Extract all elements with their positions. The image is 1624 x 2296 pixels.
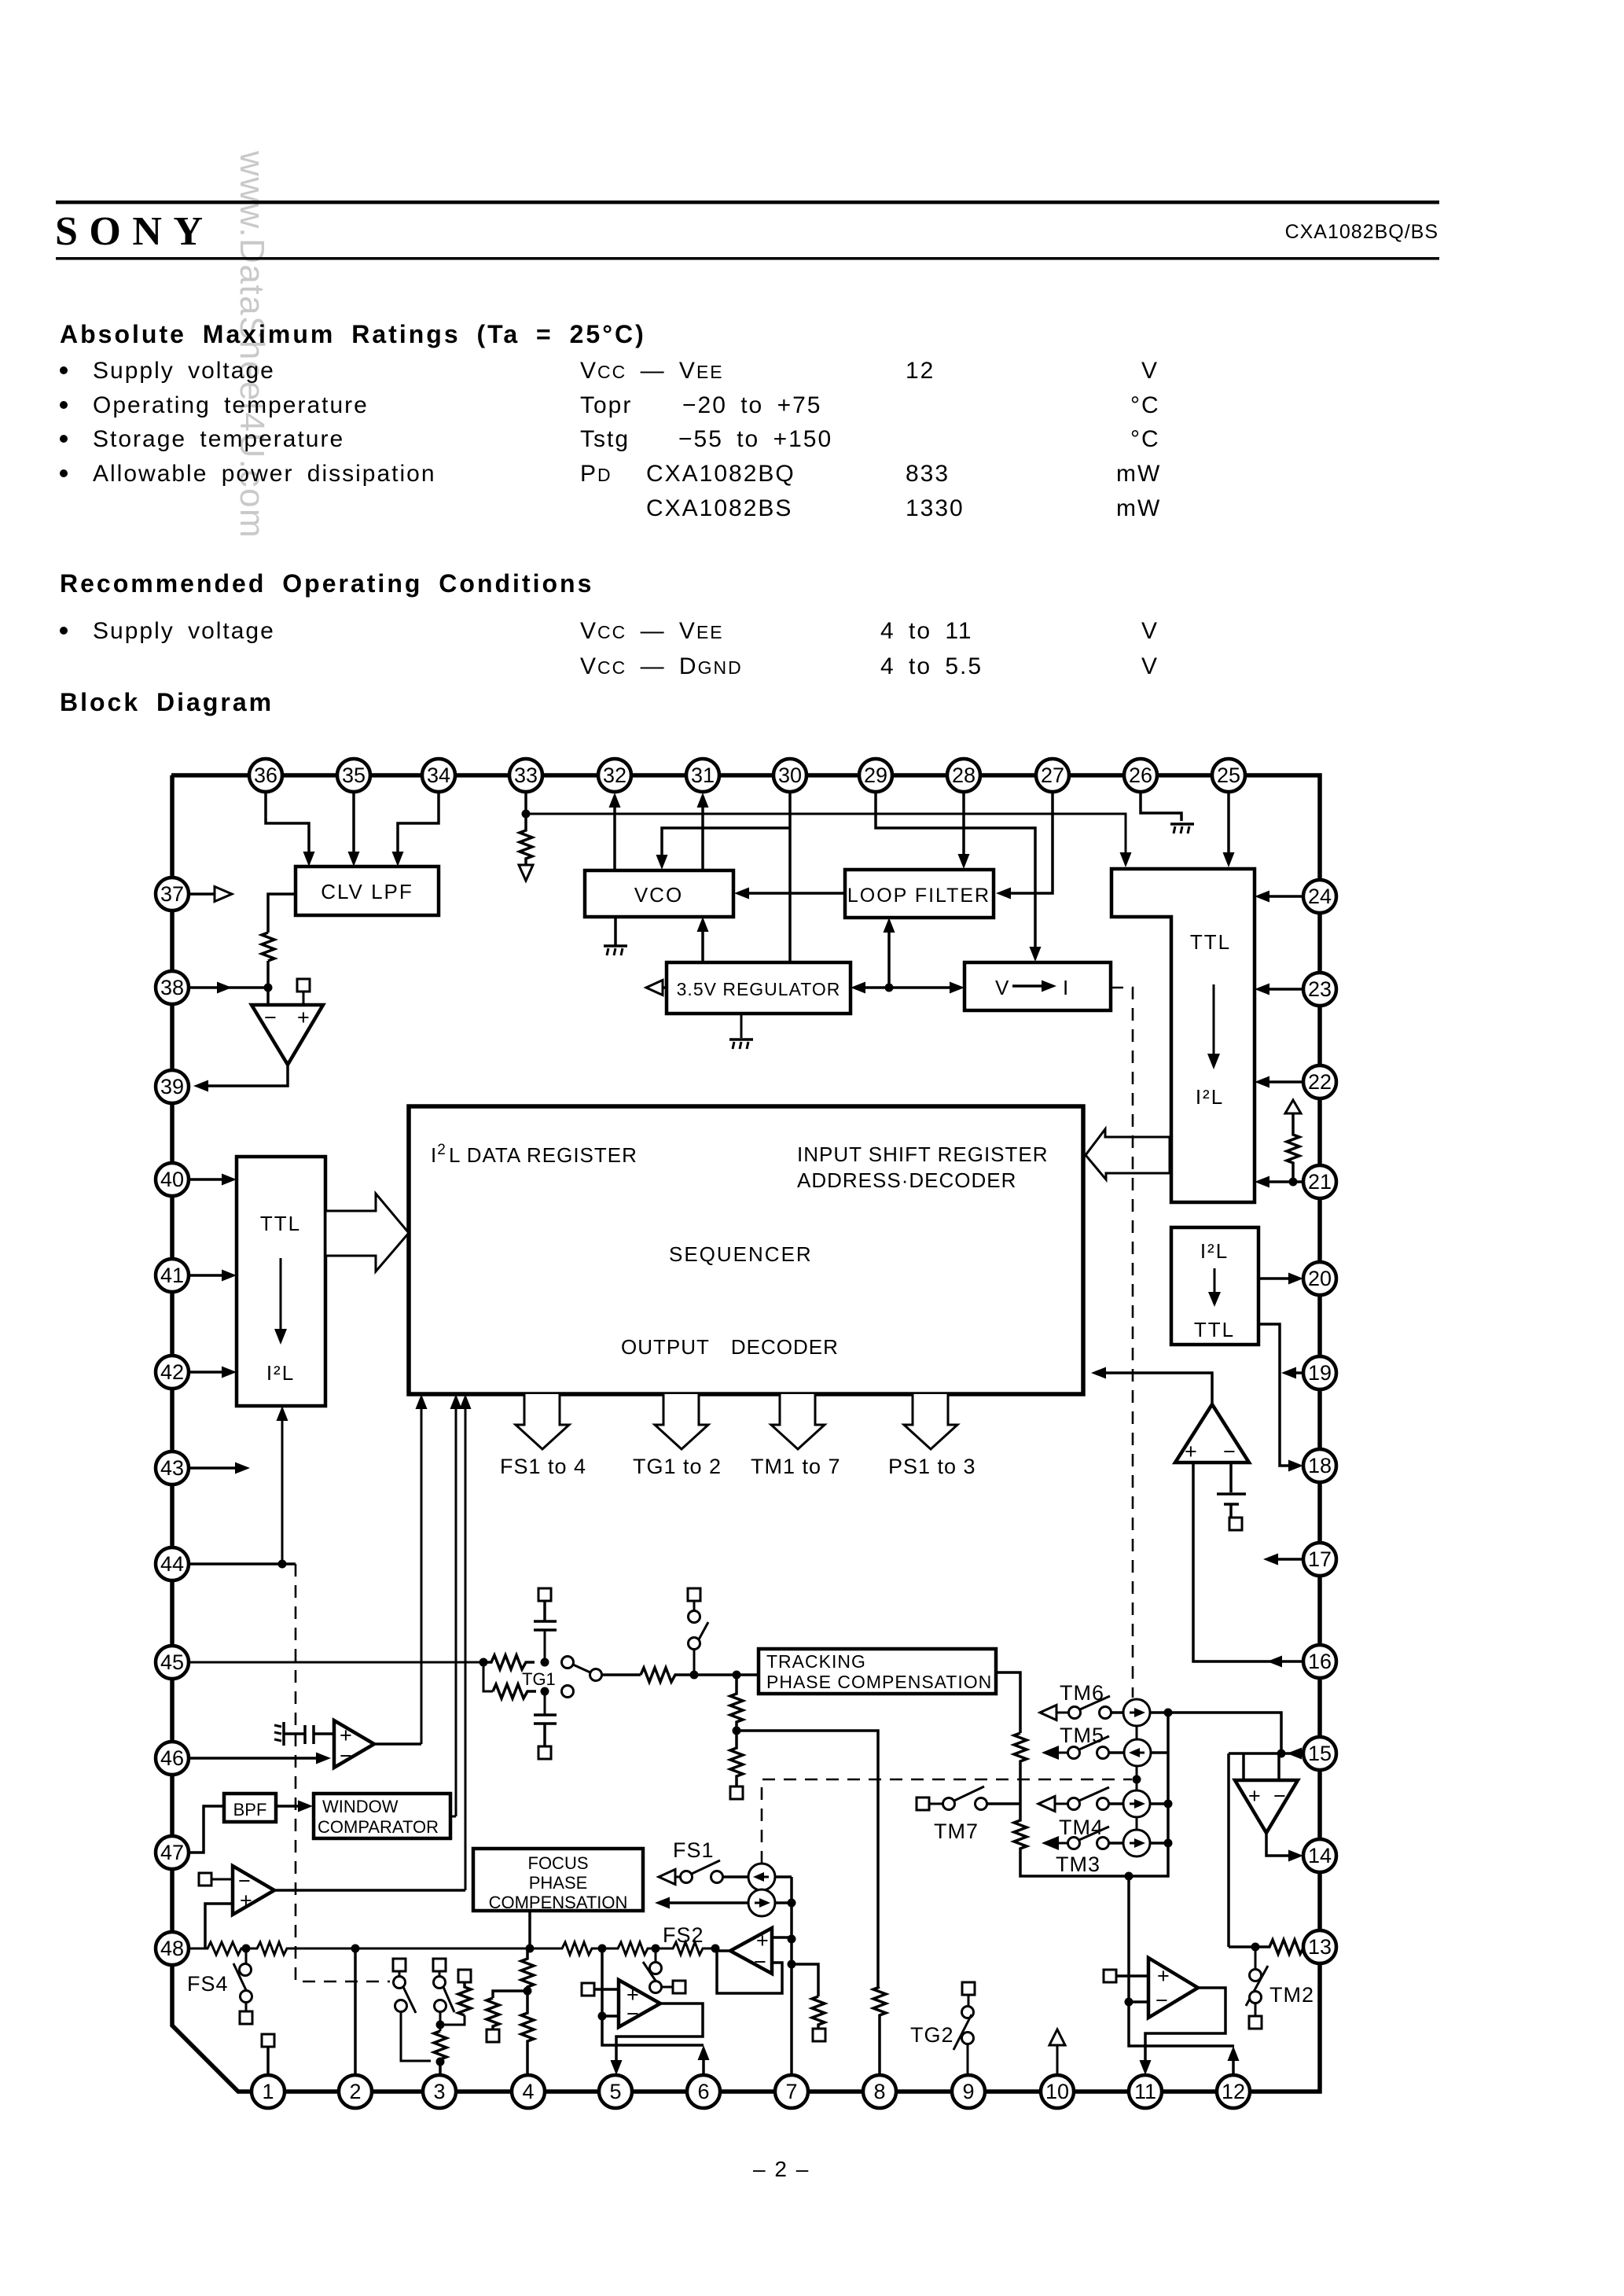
svg-text:3: 3 <box>433 2080 445 2103</box>
svg-text:V: V <box>995 976 1010 999</box>
lever S2 <box>443 1987 454 2012</box>
svg-text:+: + <box>1157 1964 1170 1988</box>
svg-text:TG1 to 2: TG1 to 2 <box>633 1455 722 1478</box>
pin 2 <box>339 2075 372 2108</box>
pin 41 <box>156 1259 189 1292</box>
pin 40 <box>156 1163 189 1196</box>
pin 9 <box>952 2075 985 2108</box>
svg-text:2: 2 <box>349 2080 361 2103</box>
svg-text:20: 20 <box>1308 1267 1332 1290</box>
svg-text:FS2: FS2 <box>663 1923 704 1947</box>
arrow TM3 (solid left) <box>1042 1836 1059 1850</box>
svg-text:BPF: BPF <box>233 1800 267 1820</box>
contact TM6 left <box>1069 1707 1081 1719</box>
wire TM4 cs to TM3 cs <box>1136 1817 1138 1830</box>
svg-text:48: 48 <box>160 1937 184 1960</box>
svg-text:TTL: TTL <box>1190 930 1231 954</box>
arrow into TTL top <box>1120 852 1132 867</box>
block CLV LPF <box>296 867 439 915</box>
svg-text:VCO: VCO <box>634 883 683 907</box>
pad TM2 <box>1249 2016 1262 2029</box>
svg-text:+: + <box>756 1929 770 1952</box>
pin 21 <box>1303 1165 1336 1198</box>
svg-text:Supply voltage: Supply voltage <box>93 358 275 384</box>
current source FS1 <box>748 1864 775 1890</box>
wire TM7 pad to contact <box>929 1803 942 1805</box>
wire TM3 arrow to contact <box>1057 1842 1067 1845</box>
arrow into CLV LPF from pin34 <box>392 852 404 867</box>
wire pin40 to TTL left <box>189 1178 223 1181</box>
svg-text:14: 14 <box>1308 1844 1332 1867</box>
wire pin13 corner up to pin15 line <box>1227 1753 1230 1947</box>
svg-text:4 to 11: 4 to 11 <box>880 618 973 644</box>
contact TM3 right <box>1097 1838 1109 1849</box>
pin 23 <box>1303 973 1336 1006</box>
wire pin30 down to regulator <box>788 792 792 962</box>
wire pin45 to TG1 node <box>189 1661 483 1664</box>
svg-text:26: 26 <box>1129 763 1152 787</box>
lever TG2 <box>953 2015 972 2050</box>
node TG1 upper <box>541 1658 549 1667</box>
wire pin23 to TTL block <box>1267 988 1303 991</box>
arrow into TTL right at pin21 <box>1255 1176 1269 1188</box>
fat open arrow shift register input <box>1086 1129 1170 1179</box>
svg-text:30: 30 <box>778 763 802 787</box>
wire resistor to node38 <box>266 961 270 988</box>
pin 35 <box>337 759 370 792</box>
wire op-amp C plus input from pin48 row <box>205 1904 233 1948</box>
svg-text:Recommended Operating Conditio: Recommended Operating Conditions <box>60 569 593 598</box>
pin 37 <box>156 878 189 911</box>
wire FS1 to current source <box>723 1875 748 1878</box>
svg-text:16: 16 <box>1308 1650 1332 1673</box>
node focus column <box>526 1945 535 1953</box>
node pin2 column top <box>351 1945 360 1953</box>
wire op-amp D plus input <box>772 1936 792 1939</box>
op-amp A (CLV) <box>252 1005 323 1065</box>
wire pin6 feedback up <box>702 2060 705 2075</box>
node TM ladder bottom <box>1125 1872 1133 1881</box>
svg-text:−: − <box>626 2002 640 2026</box>
capacitor op-amp B input <box>292 1725 334 1744</box>
contact TG1 upper <box>562 1657 574 1669</box>
wire pin48 row <box>189 1942 715 1955</box>
svg-text:I²L: I²L <box>1196 1085 1224 1109</box>
resistor pin4 column upper <box>521 1948 534 1991</box>
node TM6 row <box>1164 1709 1173 1717</box>
svg-text:7: 7 <box>785 2080 797 2103</box>
svg-text:Tstg: Tstg <box>580 426 630 452</box>
pin 4 <box>512 2075 545 2108</box>
svg-text:Topr: Topr <box>580 392 632 418</box>
lever TM4 <box>1079 1787 1109 1801</box>
svg-text:4: 4 <box>522 2080 534 2103</box>
wire node to op-amp A minus input <box>266 988 270 1005</box>
svg-text:TM7: TM7 <box>934 1820 979 1843</box>
resistor branch left <box>487 1998 499 2029</box>
svg-text:18: 18 <box>1308 1454 1332 1477</box>
pin 14 <box>1303 1839 1336 1872</box>
stub pad to contact <box>399 1971 401 1977</box>
arrow into pin18 <box>1288 1460 1303 1472</box>
stub pad to contact <box>439 1971 441 1977</box>
node TM2 <box>1251 1943 1260 1952</box>
switch TM2 stub <box>1255 1947 1257 1969</box>
capacitor TG1 upper <box>534 1601 557 1630</box>
wire TM6 cs to pin15 net <box>1150 1713 1281 1753</box>
arrow inside small box <box>1214 1268 1216 1293</box>
lever TM5 <box>1079 1736 1109 1750</box>
arrow into loop filter right <box>996 888 1011 900</box>
svg-text:ADDRESS·DECODER: ADDRESS·DECODER <box>797 1168 1016 1192</box>
wire TM3 cs to rail <box>1150 1842 1168 1845</box>
node pin44 junction <box>278 1560 287 1569</box>
svg-text:36: 36 <box>254 763 277 787</box>
bullet <box>60 366 68 374</box>
wire pin27 to loop filter right <box>1009 792 1053 893</box>
block WINDOW COMPARATOR <box>314 1794 450 1838</box>
wire pin15 line <box>1229 1752 1297 1755</box>
svg-text:°C: °C <box>1130 392 1160 418</box>
svg-text:13: 13 <box>1308 1935 1332 1959</box>
pin 26 <box>1124 759 1157 792</box>
pin 36 <box>249 759 282 792</box>
switch S1 pad (left of pin3) <box>393 1959 406 1971</box>
arrowhead inside left TTL block <box>274 1329 287 1345</box>
wire cs2 to pin7 column <box>775 1901 792 1904</box>
arrow inside TTL block <box>1213 984 1215 1054</box>
fat open arrow TTL to register <box>325 1194 409 1271</box>
wire S1 to node above pin3 <box>401 2012 431 2061</box>
contact TG2 lower <box>962 2033 974 2044</box>
wire regulator to V-I (bidirectional) <box>863 986 952 989</box>
resistor above pin21 node <box>1287 1113 1299 1182</box>
svg-text:31: 31 <box>691 763 715 787</box>
wire TM2 to pad <box>1255 2003 1257 2016</box>
pin 17 <box>1303 1543 1336 1576</box>
svg-text:3.5V REGULATOR: 3.5V REGULATOR <box>677 979 841 999</box>
wire FS4 to pad <box>245 2003 248 2011</box>
resistor below pin33 <box>520 814 532 865</box>
wire node to op-amp H minus input <box>1129 2000 1148 2003</box>
wire pin42 to TTL left <box>189 1371 223 1374</box>
node TG1 lower <box>541 1687 549 1696</box>
op-amp B (mirror comparator) <box>334 1720 374 1768</box>
wire CLV LPF left to resistor <box>268 894 296 933</box>
svg-text:34: 34 <box>427 763 450 787</box>
node switch above tracking line <box>690 1671 699 1680</box>
current source TM5 <box>1124 1739 1151 1766</box>
wire pin10 stub <box>1056 2045 1059 2075</box>
dashed net to cs FS1 top <box>762 1779 1132 1864</box>
pin 44 <box>156 1547 189 1580</box>
svg-text:35: 35 <box>342 763 366 787</box>
bullet <box>60 469 68 477</box>
node FS4 <box>242 1945 251 1953</box>
pad op-amp H plus <box>1104 1970 1116 1982</box>
svg-text:TG2: TG2 <box>910 2023 954 2047</box>
wire TM5 cs to TM4 cs <box>1136 1766 1138 1790</box>
svg-text:4 to 5.5: 4 to 5.5 <box>880 653 983 679</box>
block TRACKING PHASE COMPENSATION <box>759 1649 996 1694</box>
ground at pin26 <box>1170 822 1194 826</box>
svg-text:37: 37 <box>160 882 184 906</box>
wire pin19 stub <box>1295 1371 1303 1374</box>
arrow into VCO right <box>734 888 749 900</box>
svg-text:24: 24 <box>1308 885 1332 908</box>
switch lever above tracking <box>699 1622 708 1639</box>
svg-text:−: − <box>1273 1784 1287 1808</box>
svg-text:TTL: TTL <box>260 1212 301 1235</box>
open triangle FS1 <box>659 1870 675 1885</box>
outer IC border <box>171 775 1320 2092</box>
contact spare switch lower <box>689 1638 700 1650</box>
svg-text:CXA1082BQ/BS: CXA1082BQ/BS <box>1285 221 1438 243</box>
arrow into op-amp B minus <box>316 1753 331 1764</box>
pin 15 <box>1303 1737 1336 1770</box>
svg-text:TTL: TTL <box>1194 1318 1235 1341</box>
arrow pin17 pointing left <box>1263 1554 1278 1566</box>
wire pin37 stub <box>189 892 214 896</box>
svg-text:FOCUS: FOCUS <box>528 1853 589 1873</box>
node branch resistor <box>788 1960 796 1969</box>
arrow TM5 (solid left) <box>1042 1746 1059 1760</box>
ground under VCO <box>614 917 617 945</box>
wire pin22 to TTL block <box>1267 1080 1303 1084</box>
svg-text:40: 40 <box>160 1168 184 1191</box>
wire TM3 to current source <box>1109 1842 1123 1845</box>
contact TG2 upper <box>962 2007 974 2018</box>
node on pin21 wire <box>1289 1178 1298 1187</box>
wire node to cap below <box>544 1691 546 1715</box>
wire pin17 stub <box>1277 1558 1303 1561</box>
pad FS2 <box>673 1981 685 1993</box>
svg-text:11: 11 <box>1134 2080 1156 2103</box>
svg-text:TG1: TG1 <box>522 1669 556 1689</box>
wire TM4 to current source <box>1109 1802 1123 1805</box>
contact TM2 lower <box>1250 1992 1262 2003</box>
resistor branch pin7 <box>812 1996 825 2029</box>
wire pin34 to CLV LPF <box>398 792 439 854</box>
svg-text:−: − <box>1223 1440 1236 1463</box>
svg-text:833: 833 <box>906 461 950 487</box>
arrow into V-I top <box>1030 947 1042 962</box>
resistor pin4 column lower <box>521 1991 534 2075</box>
pin 33 <box>509 759 542 792</box>
contact TM3 left <box>1068 1838 1080 1849</box>
fat open arrow TM outputs <box>771 1394 825 1449</box>
block V to I converter <box>964 962 1111 1010</box>
pin 47 <box>156 1836 189 1869</box>
lever TM3 <box>1079 1827 1109 1840</box>
svg-text:29: 29 <box>864 763 887 787</box>
contact TM5 right <box>1097 1747 1109 1759</box>
pad below battery <box>1229 1518 1242 1530</box>
lever FS1 <box>692 1860 720 1874</box>
arrow into VCO top <box>656 855 668 870</box>
svg-text:TM1 to 7: TM1 to 7 <box>751 1455 841 1478</box>
wire cs FS1 to pin7 column <box>775 1875 792 1878</box>
switch S2 pad (above pin3) <box>433 1959 446 1971</box>
current source TM4 <box>1123 1790 1150 1817</box>
pad FS4 <box>240 2011 252 2024</box>
arrowhead cs2 output <box>655 1897 670 1909</box>
pad square above op-amp A plus input <box>297 979 310 992</box>
wire pin47 to BPF <box>189 1806 224 1853</box>
wire pin38 to node <box>189 986 268 989</box>
open arrow left of regulator <box>662 986 667 989</box>
pad op-amp E plus <box>582 1983 594 1996</box>
node below S2 <box>436 2021 445 2029</box>
pin 22 <box>1303 1065 1336 1098</box>
arrow into pin39 <box>193 1080 208 1092</box>
fat open arrow FS outputs <box>516 1394 569 1449</box>
svg-text:12: 12 <box>906 358 935 384</box>
wire pin46 to op-amp B minus <box>189 1757 318 1760</box>
dashed wire from V-I down <box>1111 988 1133 1698</box>
open triangle above pin10 <box>1049 2029 1065 2045</box>
node op-amp H minus <box>1125 1998 1133 2007</box>
contact S2 lower <box>435 2000 446 2012</box>
wire pin35 to CLV LPF <box>352 792 355 854</box>
arrow up pin12 to feedback line <box>1228 2046 1240 2061</box>
arrow up pin6 to feedback <box>698 2045 710 2060</box>
node mid column <box>733 1727 741 1735</box>
resistor R clv feedback <box>262 933 274 961</box>
pad at op-amp C minus <box>199 1873 211 1886</box>
pad TG2 <box>962 1982 975 1995</box>
svg-text:15: 15 <box>1308 1742 1332 1765</box>
wire node to switch contact <box>693 1650 696 1675</box>
bullet <box>60 627 68 635</box>
arrowhead inside small box <box>1208 1292 1221 1307</box>
wire op-amp F minus stub <box>1277 1753 1280 1780</box>
arrowhead inside TTL block <box>1207 1054 1220 1069</box>
svg-text:Storage temperature: Storage temperature <box>93 426 344 452</box>
pin 45 <box>156 1646 189 1679</box>
resistor below tracking input <box>730 1675 743 1731</box>
svg-text:1330: 1330 <box>906 495 964 521</box>
svg-text:– 2 –: – 2 – <box>753 2157 810 2181</box>
pad below TG1 cap <box>538 1746 551 1759</box>
op-amp H (tracking drive) <box>1148 1958 1198 2018</box>
pad below left branch <box>487 2029 499 2042</box>
wire pin7 column <box>790 1877 793 2075</box>
arrow up into TTL box bottom (from pin44 net) <box>277 1406 288 1421</box>
wire pin36 to CLV LPF <box>266 792 309 854</box>
arrow on pin38 wire <box>217 982 232 994</box>
TM ladder left with resistors <box>1014 1713 1168 1876</box>
wire pin21 to TTL block <box>1267 1180 1303 1183</box>
svg-text:mW: mW <box>1116 495 1161 521</box>
pin 6 <box>687 2075 720 2108</box>
svg-text:8: 8 <box>873 2080 885 2103</box>
svg-text:Absolute Maximum Ratings (Ta =: Absolute Maximum Ratings (Ta = 25°C) <box>60 320 646 348</box>
node dashed at TM column <box>1133 1775 1141 1784</box>
wire BPF to window comparator <box>276 1805 299 1808</box>
contact TG1 common <box>590 1669 602 1681</box>
svg-text:32: 32 <box>603 763 626 787</box>
svg-text:I2 L DATA REGISTER: I2 L DATA REGISTER <box>431 1142 637 1167</box>
node op-amp D plus <box>788 1935 796 1944</box>
svg-text:−: − <box>264 1006 277 1029</box>
switch lever TG1 <box>573 1665 590 1672</box>
svg-text:COMPENSATION: COMPENSATION <box>489 1893 628 1912</box>
wire FS1 arrow to contact <box>675 1876 680 1878</box>
wire minus column down to feedback <box>602 2016 704 2045</box>
arrow into pin5 <box>611 2060 623 2075</box>
node FS2 switch <box>652 1945 660 1953</box>
block BPF <box>224 1794 276 1822</box>
svg-text:I²L: I²L <box>1200 1239 1229 1263</box>
wire node to pin3 <box>439 2062 442 2075</box>
svg-text:Block Diagram: Block Diagram <box>60 688 274 716</box>
node tracking input column <box>733 1671 741 1680</box>
wire VCO to pin32 <box>613 796 616 870</box>
wire TG2 to pin9 <box>967 2044 969 2075</box>
pad TM7 <box>917 1797 929 1810</box>
wire pin8 resistor column <box>873 1987 886 2075</box>
wire to tracking box input <box>694 1673 759 1676</box>
svg-text:25: 25 <box>1217 763 1240 787</box>
contact S2 upper <box>434 1977 446 1989</box>
arrow inside V-I block <box>1012 984 1042 988</box>
node cs2 row <box>788 1899 796 1908</box>
arrow into TTL right at pin22 <box>1255 1076 1269 1088</box>
pin 25 <box>1212 759 1245 792</box>
pin 19 <box>1303 1356 1336 1389</box>
wire up-line to TTL bottom <box>281 1415 284 1564</box>
wire pin30 branch to VCO top <box>662 828 790 857</box>
svg-text:I: I <box>1063 976 1070 999</box>
wire TM5 arrow to contact <box>1057 1752 1067 1754</box>
pin 24 <box>1303 880 1336 913</box>
contact TG1 lower <box>562 1686 574 1698</box>
svg-text:OUTPUT DECODER: OUTPUT DECODER <box>621 1335 839 1359</box>
contact TM6 right <box>1100 1707 1111 1719</box>
pin 3 <box>423 2075 456 2108</box>
wire pad to op-amp E plus <box>594 1988 619 1991</box>
pad above pin1 <box>262 2034 274 2047</box>
node pin33 junction <box>522 810 531 819</box>
wire pin28 to loop filter <box>962 792 965 856</box>
arrowhead pin43 <box>235 1463 250 1474</box>
arrow into TTL left at pin40 <box>222 1174 237 1186</box>
wire TM4 cs to rail <box>1150 1802 1168 1805</box>
svg-text:45: 45 <box>160 1650 184 1674</box>
block LOOP FILTER <box>845 870 994 918</box>
wire pin41 to TTL left <box>189 1274 223 1277</box>
arrow on pin16 wire pointing left <box>1267 1656 1282 1668</box>
svg-text:°C: °C <box>1130 426 1160 452</box>
open triangle TM4 <box>1038 1797 1055 1812</box>
contact FS1 left <box>681 1871 693 1883</box>
contact FS2 lower <box>650 1981 662 1993</box>
wire pad to op-amp A plus <box>303 992 305 1005</box>
pin 7 <box>775 2075 808 2108</box>
svg-text:39: 39 <box>160 1075 184 1098</box>
pin 16 <box>1303 1645 1336 1678</box>
lever FS2 <box>643 1962 656 1981</box>
svg-text:Supply voltage: Supply voltage <box>93 618 275 644</box>
wire pin44 to junction <box>189 1562 296 1566</box>
pin 27 <box>1036 759 1069 792</box>
pin 48 <box>156 1932 189 1965</box>
arrow into regulator right <box>851 982 865 994</box>
svg-text:FS1 to 4: FS1 to 4 <box>500 1455 586 1478</box>
wire op-amp B output corner <box>374 1742 421 1746</box>
pad above switch <box>688 1588 700 1601</box>
